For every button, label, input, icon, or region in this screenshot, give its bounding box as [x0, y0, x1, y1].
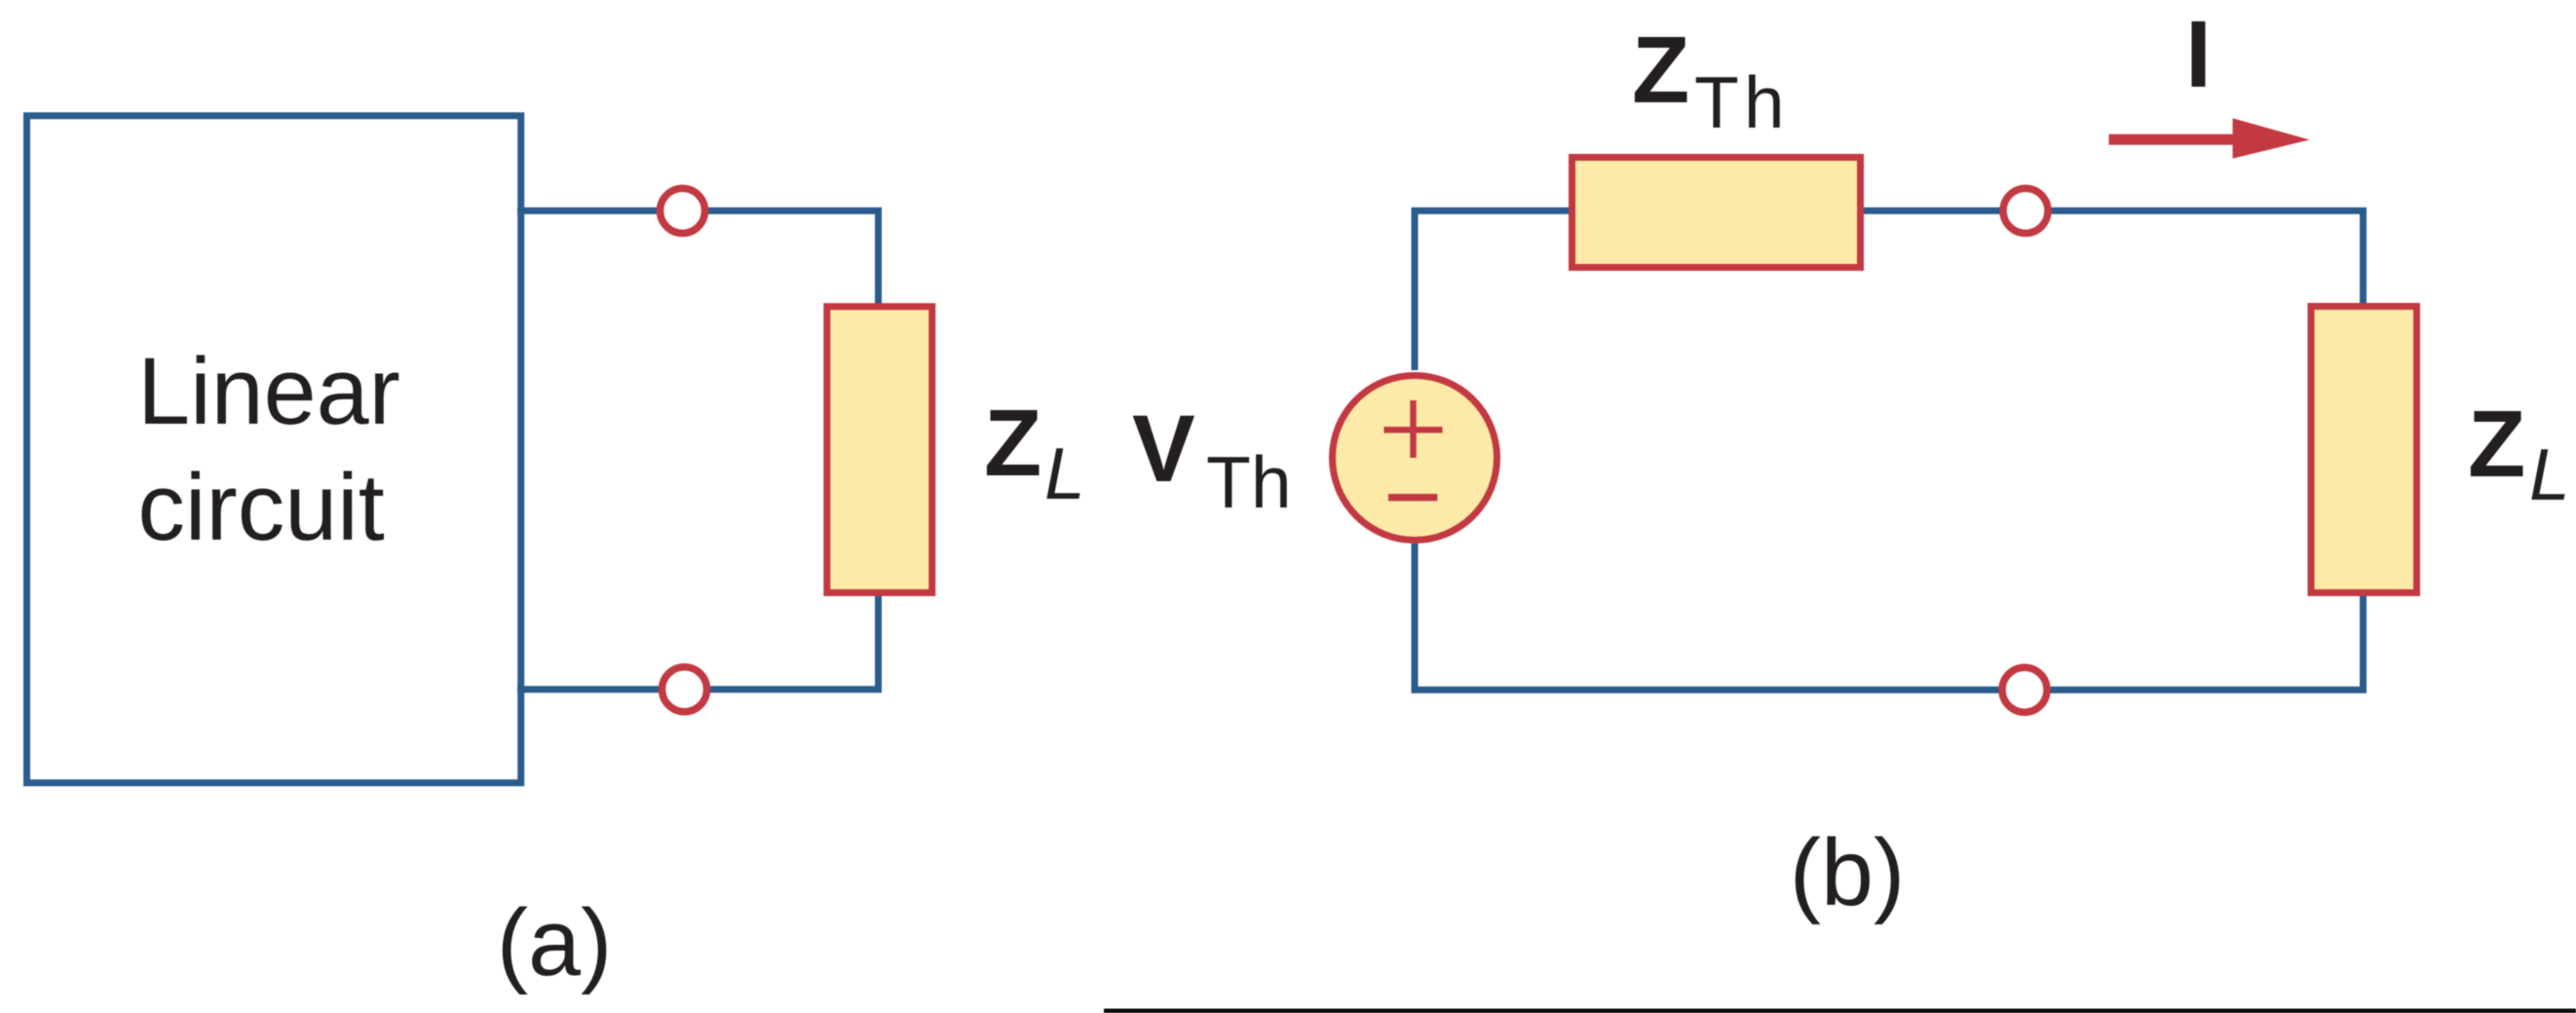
current arrow I: [2109, 134, 2240, 145]
svg-text:Z: Z: [1632, 17, 1689, 123]
svg-text:V: V: [1132, 395, 1195, 502]
wire: (a) bottom lead from box to load corner: [517, 589, 879, 690]
svg-text:circuit: circuit: [137, 454, 384, 560]
svg-text:(b): (b): [1790, 819, 1906, 925]
terminal a-top: [661, 188, 705, 233]
svg-text:Th: Th: [1694, 61, 1790, 143]
page rule (bottom black bar): [1104, 1009, 2576, 1013]
wire: (b) bottom rail: [1415, 544, 2364, 690]
svg-text:Z: Z: [984, 390, 1042, 496]
svg-text:I: I: [2185, 1, 2212, 107]
svg-text:Th: Th: [1206, 441, 1292, 523]
svg-text:Z: Z: [2468, 391, 2525, 497]
wire: (a) top lead from box to load corner: [517, 210, 879, 312]
svg-text:L: L: [2529, 433, 2570, 515]
wire: (b) top rail: [1415, 210, 2364, 370]
terminal a-bottom: [663, 667, 707, 712]
svg-text:(a): (a): [497, 889, 613, 995]
terminal b-bottom: [2002, 667, 2047, 712]
svg-text:Linear: Linear: [137, 338, 400, 444]
terminal b-top: [2003, 188, 2048, 233]
load impedance ZL (a): [827, 307, 932, 593]
plus sign: [1384, 400, 1443, 458]
svg-text:L: L: [1044, 432, 1085, 514]
Thevenin impedance ZTh: [1572, 158, 1861, 268]
voltage source VTh: [1333, 376, 1497, 541]
linear circuit box: [27, 116, 521, 783]
load impedance ZL (b): [2311, 307, 2417, 593]
minus sign: [1388, 494, 1437, 501]
